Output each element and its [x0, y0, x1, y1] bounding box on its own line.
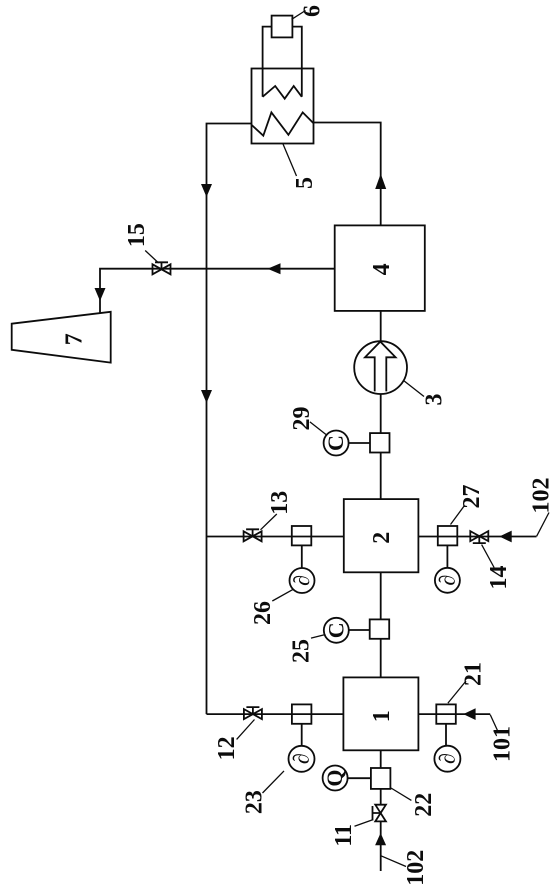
leader 5	[283, 144, 297, 176]
square at valve 13 branch (sensor 26)	[292, 526, 312, 545]
leader 23	[263, 771, 285, 793]
svg-text:25: 25	[289, 639, 315, 663]
exchanger 5 bottom zigzag	[252, 112, 314, 135]
arrow left on 102 right inlet	[499, 531, 511, 543]
pump 3 circle	[354, 341, 407, 394]
square at valve 12 branch (sensor 23)	[292, 704, 312, 723]
svg-text:3: 3	[422, 394, 448, 406]
box 4	[335, 225, 425, 311]
pump 3 fan arrow	[365, 342, 396, 392]
valve 11 (vertical)	[373, 805, 386, 822]
leader 102 right	[537, 513, 549, 537]
arrow down into stack 7	[95, 288, 106, 301]
leader 15	[145, 251, 158, 264]
leader 6	[292, 11, 306, 20]
square 29	[370, 433, 390, 452]
leader 22	[391, 788, 411, 800]
leader 12	[237, 720, 255, 740]
leader 25	[311, 635, 326, 639]
wire: square 25 to box 1	[380, 639, 382, 678]
svg-text:22: 22	[411, 793, 437, 817]
arrow left on 101 inlet	[463, 708, 475, 720]
neck of exchanger 5	[263, 27, 302, 97]
svg-text:14: 14	[486, 566, 512, 590]
wire: valve 11 to inlet 102 bottom end	[380, 821, 382, 871]
svg-text:1: 1	[369, 710, 395, 722]
square 25	[370, 619, 390, 638]
svg-text:101: 101	[490, 726, 516, 762]
wire: box 1 to square 22	[380, 750, 382, 768]
exchanger 5 top zigzag	[263, 86, 302, 99]
square 21	[436, 704, 456, 723]
sensor 27 circle	[435, 568, 460, 593]
wire: heat exchanger 5 left outlet to left drop	[207, 124, 252, 715]
arrow up on 102 bottom inlet	[375, 833, 386, 845]
svg-text:12: 12	[214, 736, 240, 760]
leader 21	[448, 681, 466, 703]
svg-text:∂: ∂	[289, 753, 314, 764]
valve 13	[244, 529, 262, 541]
svg-text:23: 23	[241, 790, 267, 814]
leader 102 bottom	[381, 856, 406, 867]
svg-text:∂: ∂	[289, 575, 314, 586]
box 6	[272, 16, 293, 38]
valve 12	[244, 707, 262, 719]
wire: box4 bottom to pump 3	[380, 311, 382, 341]
svg-text:102: 102	[403, 850, 429, 886]
sensor 29 circle C	[324, 431, 349, 456]
svg-text:102: 102	[529, 478, 555, 514]
leader 14	[482, 545, 495, 568]
wire: heat exchanger 5 right outlet to condenser 4 top	[314, 123, 381, 226]
svg-text:∂: ∂	[434, 753, 459, 764]
svg-text:21: 21	[461, 662, 487, 686]
sensor 25 circle C	[324, 618, 349, 643]
sensor 22 circle Q	[323, 766, 348, 791]
svg-text:2: 2	[369, 532, 395, 544]
svg-text:15: 15	[124, 223, 150, 247]
svg-text:11: 11	[331, 824, 357, 847]
leader 3	[404, 381, 424, 397]
wire: box 4 left to stack line	[100, 269, 335, 313]
stack 7 trapezoid	[12, 312, 111, 363]
sensor 26 circle	[290, 568, 315, 593]
svg-text:26: 26	[250, 601, 276, 625]
leader 29	[310, 422, 326, 435]
svg-text:4: 4	[369, 263, 395, 275]
svg-text:13: 13	[267, 491, 293, 515]
valve 15	[153, 262, 171, 274]
svg-text:Q: Q	[322, 769, 347, 786]
leader 13	[261, 514, 277, 530]
sensor 23 circle	[289, 746, 315, 772]
svg-text:6: 6	[300, 5, 326, 17]
leader 11	[355, 820, 373, 826]
arrow up into exchanger 5 from box 4	[375, 174, 386, 189]
square 22	[371, 768, 391, 789]
wire: left rail to valve 12 row into box 1	[207, 713, 344, 715]
wire: left rail to valve 13 row into box 2	[207, 536, 344, 538]
leader 101	[490, 715, 497, 731]
wire: box 2 right to inlet 102 right end	[418, 536, 536, 538]
heat exchanger 5 shell	[252, 69, 314, 144]
wire: pump 3 to square 29	[380, 394, 382, 433]
svg-text:C: C	[323, 622, 348, 638]
wire: box 1 right to inlet 101 end	[418, 713, 490, 715]
svg-text:C: C	[323, 435, 348, 451]
leader 26	[272, 589, 293, 601]
svg-text:27: 27	[459, 485, 485, 509]
sensor 21 circle	[434, 746, 460, 772]
box 2	[344, 499, 419, 572]
svg-text:7: 7	[62, 333, 88, 345]
leader 27	[451, 506, 465, 525]
arrow left toward valve 15	[268, 263, 281, 274]
svg-text:29: 29	[289, 407, 315, 431]
arrow down on left rail (top)	[201, 184, 212, 197]
wire: box 2 to square 25	[380, 572, 382, 619]
box 1	[343, 677, 418, 750]
svg-text:∂: ∂	[434, 575, 459, 586]
arrow down on left rail (middle)	[201, 390, 212, 403]
valve 14	[470, 531, 488, 543]
wire: square 22 to valve 11	[380, 789, 382, 805]
square 27	[438, 526, 458, 545]
wire: square 29 to box 2	[380, 453, 382, 500]
svg-text:5: 5	[292, 177, 318, 189]
